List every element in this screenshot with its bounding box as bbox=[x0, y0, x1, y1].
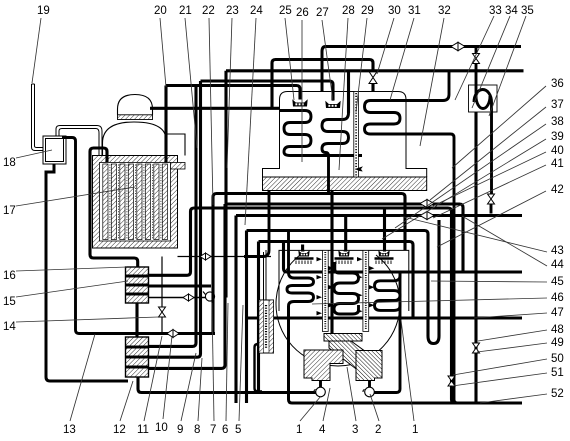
pipe H70 bbox=[226, 69, 524, 72]
valve 33 bbox=[451, 42, 465, 50]
link pipe hx1-hx2 bbox=[135, 303, 138, 337]
valve 41 bbox=[420, 212, 434, 220]
svg-text:17: 17 bbox=[3, 205, 16, 217]
valve 14 bbox=[159, 307, 166, 317]
hx2 drain to bottom main bbox=[138, 377, 316, 393]
trap tube bbox=[474, 64, 492, 214]
boiler 17 shell bbox=[93, 156, 178, 249]
svg-text:33: 33 bbox=[489, 5, 502, 17]
standpipe 45 bbox=[259, 250, 274, 353]
svg-text:5: 5 bbox=[235, 424, 241, 436]
svg-text:16: 16 bbox=[3, 270, 16, 282]
coil C bbox=[375, 272, 401, 310]
valve 10 bbox=[167, 330, 179, 338]
coil B bbox=[334, 262, 359, 314]
svg-text:11: 11 bbox=[137, 424, 149, 436]
svg-text:39: 39 bbox=[551, 131, 564, 143]
mist column top bbox=[354, 92, 359, 178]
svg-text:30: 30 bbox=[388, 5, 401, 17]
coil T3 bbox=[365, 71, 458, 403]
svg-text:1: 1 bbox=[296, 424, 302, 436]
pipe from 18 top to lower loop bbox=[62, 138, 215, 334]
tank 18 bbox=[43, 136, 66, 164]
svg-text:23: 23 bbox=[226, 5, 239, 17]
pipe thin w valve 14 bbox=[161, 257, 163, 334]
nozzle B1 bbox=[295, 250, 314, 264]
feed B1 bbox=[301, 245, 304, 252]
pipe V400 coilC drain bbox=[375, 272, 401, 393]
drain pot left bbox=[314, 387, 325, 397]
svg-text:49: 49 bbox=[551, 337, 564, 349]
boiler downcomer right bbox=[164, 86, 167, 163]
pipe H215 bbox=[236, 216, 522, 404]
svg-text:44: 44 bbox=[551, 259, 564, 271]
svg-text:14: 14 bbox=[3, 321, 16, 333]
hx1 outlet C pump line bbox=[149, 297, 214, 299]
pipe V454 low valve bbox=[451, 366, 453, 376]
pipe 13 outer loop left bbox=[46, 164, 128, 381]
pipe thin vent 19 bbox=[32, 84, 44, 151]
heater block 15-16 bbox=[126, 267, 149, 303]
svg-text:48: 48 bbox=[551, 324, 564, 336]
column B1 arrows bbox=[317, 257, 334, 315]
svg-text:12: 12 bbox=[113, 424, 126, 436]
svg-text:4: 4 bbox=[319, 424, 326, 436]
steam pipe from dome bbox=[150, 107, 280, 110]
valve 8 bbox=[183, 294, 194, 301]
standpipe drain bbox=[255, 344, 263, 392]
pipe H203 bbox=[225, 204, 463, 272]
svg-text:38: 38 bbox=[551, 116, 564, 128]
column outlet arrow bbox=[356, 167, 362, 171]
heater block 12 bbox=[126, 337, 149, 377]
hx1 outlet A bbox=[149, 208, 456, 403]
feed B3 bbox=[383, 208, 386, 252]
svg-text:19: 19 bbox=[37, 5, 50, 17]
valve on trap feed bbox=[473, 54, 480, 64]
pipe main steam H48 bbox=[322, 47, 521, 92]
nozzle T1 bbox=[292, 99, 307, 106]
nozzle wires bbox=[344, 250, 384, 251]
valve 49b bbox=[488, 194, 495, 204]
coil T2 bbox=[322, 107, 349, 194]
svg-text:6: 6 bbox=[222, 424, 228, 436]
svg-text:32: 32 bbox=[438, 5, 451, 17]
valve 30 bbox=[369, 72, 377, 84]
valve 49 bbox=[473, 343, 480, 353]
band drain pipe V269 bbox=[244, 191, 269, 257]
coil T1 bbox=[280, 111, 363, 156]
nozzle B2 bbox=[335, 250, 354, 264]
tube sheet hatched bbox=[263, 177, 427, 191]
svg-text:40: 40 bbox=[551, 145, 564, 157]
mist column B1 bbox=[322, 250, 328, 331]
trap feed bbox=[475, 47, 478, 54]
pipe H241 bbox=[259, 242, 523, 392]
svg-text:46: 46 bbox=[551, 292, 564, 304]
pump down V332 bbox=[330, 191, 333, 334]
hx2 outlet B bbox=[149, 81, 201, 357]
svg-text:52: 52 bbox=[551, 388, 564, 400]
svg-text:34: 34 bbox=[505, 5, 518, 17]
svg-text:45: 45 bbox=[551, 276, 564, 288]
mist column B2 bbox=[363, 250, 369, 331]
pipe H85 nozzle T1 feed bbox=[166, 86, 300, 100]
pipe H81 nozzle T2 feed bbox=[201, 81, 334, 101]
valve 40 bbox=[420, 200, 434, 208]
svg-text:31: 31 bbox=[408, 5, 421, 17]
small dome bbox=[118, 95, 153, 115]
svg-text:28: 28 bbox=[342, 5, 355, 17]
svg-text:50: 50 bbox=[551, 353, 564, 365]
feed B2 bbox=[344, 216, 347, 252]
svg-text:37: 37 bbox=[551, 99, 564, 111]
boiler shell notch bbox=[171, 163, 186, 170]
svg-text:41: 41 bbox=[551, 158, 564, 170]
svg-text:9: 9 bbox=[177, 424, 183, 436]
svg-text:20: 20 bbox=[154, 5, 167, 17]
svg-text:36: 36 bbox=[551, 78, 564, 90]
pipe H230 bbox=[247, 220, 440, 403]
pipe H318 bbox=[247, 316, 523, 319]
svg-text:7: 7 bbox=[210, 424, 216, 436]
vertical H70-V226 bbox=[224, 71, 227, 298]
svg-text:42: 42 bbox=[551, 184, 564, 196]
valve 51 bbox=[448, 376, 455, 386]
svg-text:10: 10 bbox=[155, 422, 168, 434]
branch to coil T2 bbox=[347, 71, 350, 113]
drain pot right bbox=[363, 387, 374, 397]
coil A bbox=[287, 231, 314, 331]
large dome bbox=[103, 122, 186, 156]
thin pipe 24 bbox=[178, 256, 272, 258]
svg-text:25: 25 bbox=[279, 5, 292, 17]
hx2 outlet A bbox=[149, 86, 197, 347]
valve on thin pipe bbox=[200, 253, 211, 260]
svg-text:18: 18 bbox=[3, 157, 16, 169]
svg-text:26: 26 bbox=[296, 7, 309, 19]
svg-text:43: 43 bbox=[551, 245, 564, 257]
compressor leg stubs bbox=[321, 381, 370, 388]
nozzle B3 bbox=[375, 250, 394, 264]
svg-text:35: 35 bbox=[521, 5, 534, 17]
svg-text:51: 51 bbox=[551, 367, 564, 379]
svg-text:22: 22 bbox=[202, 5, 215, 17]
pipe thin from 18 to dome bbox=[56, 126, 102, 159]
hx1 outlet B bbox=[149, 284, 212, 287]
column B2 arrows bbox=[357, 257, 374, 313]
svg-text:29: 29 bbox=[361, 5, 374, 17]
pipe H193 bbox=[213, 194, 405, 334]
svg-text:47: 47 bbox=[551, 307, 564, 319]
svg-text:13: 13 bbox=[63, 424, 76, 436]
boiler tubes bbox=[103, 164, 168, 240]
hx2 outlet C bbox=[149, 204, 226, 368]
pump 7 bbox=[203, 292, 215, 302]
vessel circle bbox=[276, 255, 400, 366]
pipe bottom main bbox=[289, 306, 523, 403]
svg-text:15: 15 bbox=[3, 296, 16, 308]
nozzle T2 bbox=[325, 101, 340, 108]
trap box bbox=[469, 85, 498, 112]
evaporator shell top bbox=[263, 92, 427, 178]
inner casing rect bbox=[279, 250, 409, 311]
svg-text:27: 27 bbox=[316, 7, 329, 19]
svg-text:1: 1 bbox=[412, 424, 418, 436]
boiler feed elbow left bbox=[90, 148, 138, 268]
pipe H59 bbox=[272, 60, 373, 109]
svg-text:3: 3 bbox=[352, 424, 358, 436]
svg-text:24: 24 bbox=[250, 5, 263, 17]
svg-text:8: 8 bbox=[194, 424, 200, 436]
dome neck hatch bbox=[118, 115, 153, 120]
svg-text:2: 2 bbox=[375, 424, 381, 436]
compressor body bbox=[304, 334, 382, 381]
svg-text:21: 21 bbox=[179, 5, 192, 17]
pipe V476 long bbox=[474, 112, 477, 403]
